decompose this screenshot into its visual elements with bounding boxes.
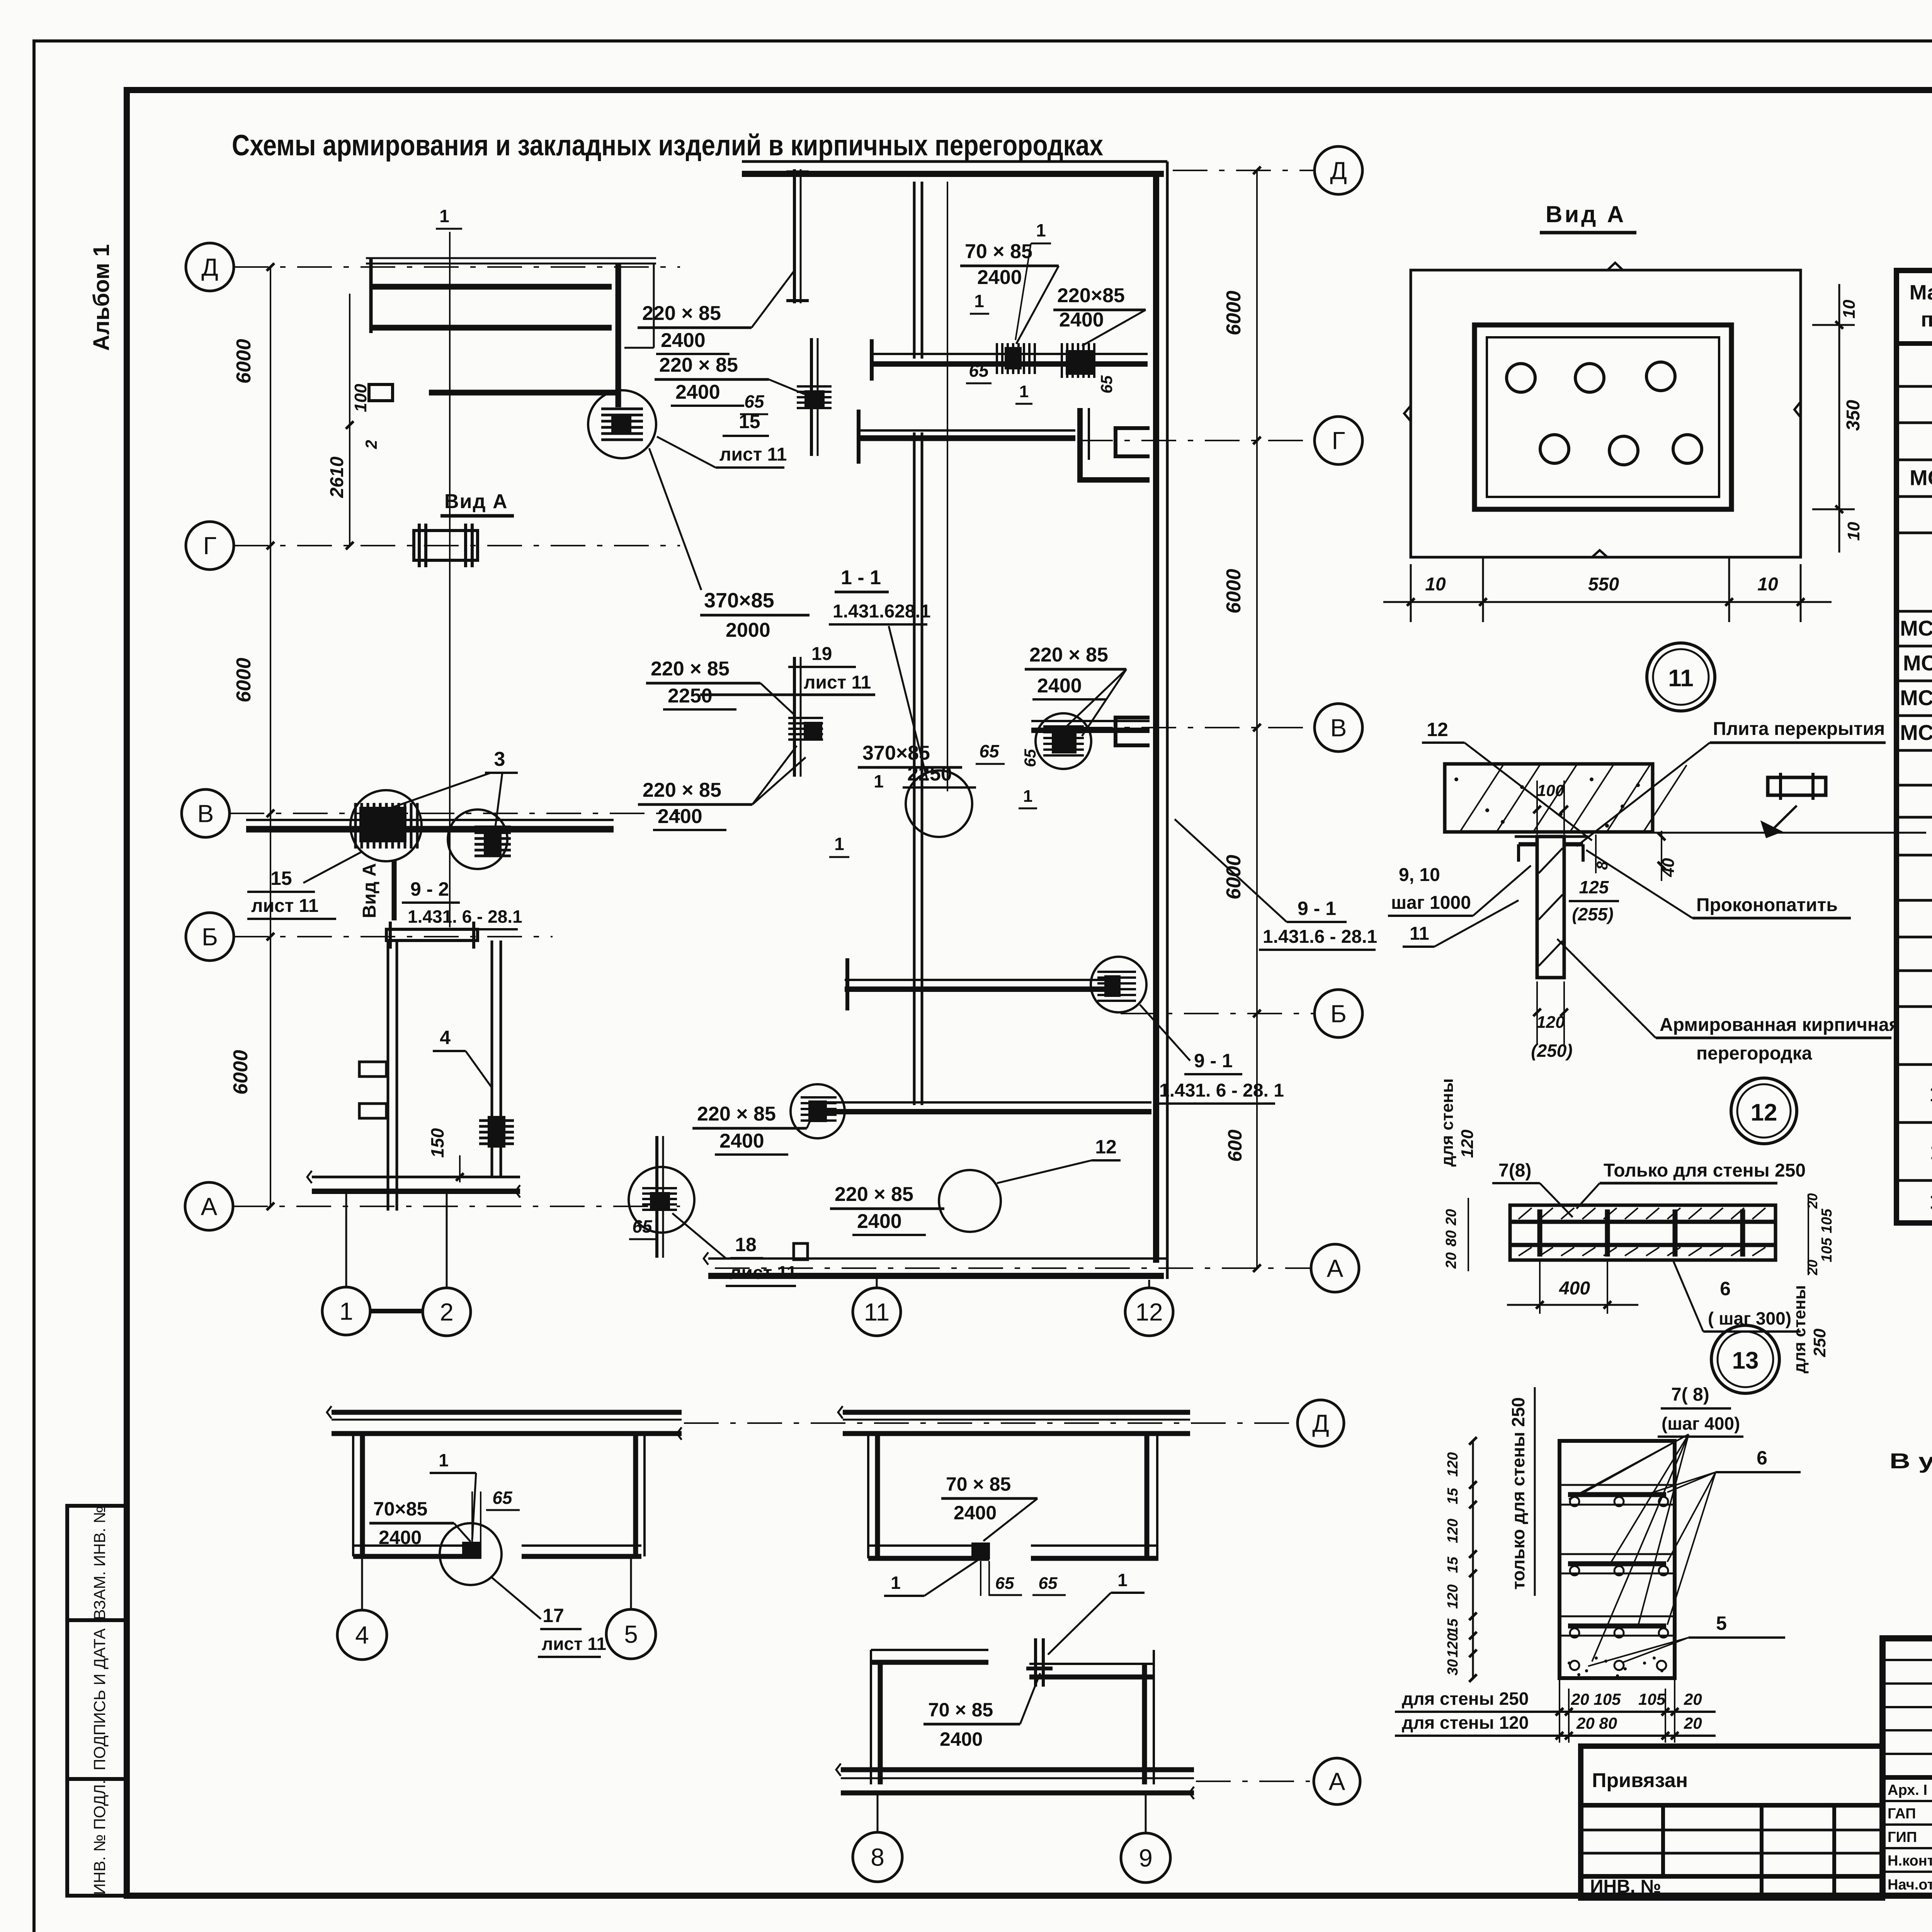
svg-text:лист 11: лист 11 [730, 1263, 797, 1283]
svg-text:2610: 2610 [327, 456, 347, 498]
svg-text:5: 5 [1716, 1612, 1727, 1634]
dim 120 (250) below partition [1536, 981, 1538, 1045]
svg-text:220×85: 220×85 [1057, 284, 1125, 307]
svg-text:13: 13 [1732, 1347, 1759, 1374]
svg-text:перегородка: перегородка [1696, 1043, 1812, 1064]
svg-text:7( 8): 7( 8) [1671, 1384, 1709, 1405]
svg-text:65: 65 [1097, 375, 1116, 393]
left dimension chain [270, 267, 271, 1206]
svg-text:12: 12 [1135, 1298, 1163, 1326]
RP wall axis B [845, 979, 1117, 981]
view A inner plate double contour [1475, 325, 1731, 509]
RP axis G jog [1077, 408, 1083, 483]
svg-text:350: 350 [1843, 400, 1864, 431]
svg-text:Нач.отд.: Нач.отд. [1888, 1877, 1932, 1893]
svg-text:Плита перекрытия: Плита перекрытия [1713, 719, 1885, 739]
RP node row1 b [1066, 350, 1094, 375]
svg-text:65: 65 [979, 741, 1000, 761]
svg-text:ПОДПИСЬ И ДАТА: ПОДПИСЬ И ДАТА [90, 1628, 109, 1770]
svg-text:70 × 85: 70 × 85 [946, 1473, 1011, 1495]
svg-text:лист 11: лист 11 [804, 672, 871, 693]
section 8-9 upper room [843, 1410, 1190, 1415]
svg-text:15: 15 [1445, 1488, 1461, 1504]
svg-text:15: 15 [1445, 1556, 1461, 1573]
svg-text:120: 120 [1445, 1584, 1461, 1609]
svg-text:220 × 85: 220 × 85 [1029, 644, 1108, 666]
svg-text:20: 20 [1804, 1260, 1820, 1276]
big circle junction (1-1 zone) [906, 770, 972, 837]
svg-text:(250): (250) [1531, 1041, 1572, 1061]
svg-text:10: 10 [1425, 574, 1446, 595]
svg-text:1: 1 [891, 1573, 901, 1593]
svg-text:10: 10 [1757, 574, 1778, 595]
svg-text:Б: Б [1330, 1000, 1347, 1027]
bottom-left stamp table [1581, 1746, 1883, 1898]
svg-text:1: 1 [439, 206, 449, 226]
svg-text:150: 150 [427, 1128, 447, 1158]
svg-text:11: 11 [1410, 923, 1429, 944]
svg-text:220 × 85: 220 × 85 [643, 779, 721, 801]
section line 1 left plan [449, 232, 451, 927]
svg-text:Арх. I кат: Арх. I кат [1888, 1782, 1932, 1798]
svg-text:2400: 2400 [940, 1728, 983, 1750]
svg-text:65: 65 [744, 391, 765, 412]
svg-text:250: 250 [1810, 1328, 1829, 1357]
svg-text:1.431. 6 - 28. 1: 1.431. 6 - 28. 1 [1159, 1080, 1284, 1101]
svg-text:11: 11 [1668, 665, 1694, 692]
svg-text:15: 15 [1445, 1618, 1461, 1635]
svg-text:9 - 1: 9 - 1 [1298, 898, 1336, 919]
LP top corridor walls [366, 257, 656, 259]
svg-text:шаг 1000: шаг 1000 [1391, 893, 1471, 913]
svg-text:120: 120 [1445, 1452, 1461, 1476]
RP node axis V [1052, 728, 1077, 753]
RP node below-B left [808, 1100, 827, 1122]
svg-text:6000: 6000 [230, 1050, 252, 1095]
title block outer [1883, 1638, 1932, 1896]
svg-text:Вид А: Вид А [444, 490, 508, 513]
svg-text:для стены: для стены [1790, 1285, 1809, 1373]
svg-text:2400: 2400 [379, 1527, 422, 1548]
svg-text:А: А [1329, 1767, 1345, 1795]
svg-text:1: 1 [874, 771, 884, 791]
svg-text:для стены 120: для стены 120 [1402, 1713, 1529, 1733]
svg-text:9: 9 [1139, 1844, 1153, 1872]
svg-text:МС 64-1: МС 64-1 [1900, 616, 1932, 640]
section line 1 right plan [947, 182, 948, 791]
svg-text:80: 80 [1443, 1230, 1459, 1247]
d13 left dim chain [1472, 1441, 1474, 1678]
svg-text:6: 6 [1720, 1278, 1731, 1299]
svg-text:105: 105 [1819, 1237, 1835, 1262]
RP node axis B with circle [1104, 975, 1121, 997]
svg-text:В: В [1330, 714, 1347, 742]
svg-text:70 × 85: 70 × 85 [965, 240, 1032, 263]
flange bar 2 + node [810, 338, 813, 456]
RP node row1 a [1005, 347, 1022, 369]
slab (plita perekrytiya) [1445, 764, 1653, 832]
svg-text:для стены 250: для стены 250 [1402, 1689, 1529, 1709]
svg-text:Привязан: Привязан [1592, 1769, 1688, 1792]
svg-text:2400: 2400 [661, 329, 706, 352]
svg-text:ИНВ. №: ИНВ. № [1590, 1876, 1661, 1897]
rebar rows [1568, 1492, 1666, 1497]
label 15 list 11 (axis V) [303, 852, 361, 883]
svg-text:ИНВ. № ПОДЛ.: ИНВ. № ПОДЛ. [90, 1780, 109, 1895]
svg-text:2400: 2400 [658, 805, 702, 828]
svg-text:550: 550 [1588, 574, 1619, 595]
svg-text:65: 65 [995, 1574, 1014, 1593]
svg-text:3: 3 [494, 748, 505, 770]
LP opening on axis B [386, 929, 478, 940]
svg-text:10: 10 [1844, 522, 1863, 541]
axis dash-dot lines left plan [234, 266, 680, 268]
right plan axes dash-dot [1173, 170, 1315, 171]
svg-text:220 × 85: 220 × 85 [642, 302, 721, 325]
bottom bubbles 11 12 [876, 1279, 878, 1287]
LP axis A floor beam [312, 1176, 520, 1179]
svg-text:12: 12 [1427, 719, 1448, 740]
svg-text:для стены: для стены [1438, 1078, 1457, 1167]
signature empty rows [1883, 1659, 1932, 1661]
svg-text:100: 100 [351, 384, 370, 412]
svg-text:19: 19 [811, 644, 832, 664]
svg-text:15: 15 [270, 867, 292, 889]
RP interior vertical partition [913, 182, 916, 359]
svg-text:1 - 1: 1 - 1 [841, 566, 881, 589]
view A break marks [1607, 263, 1623, 270]
svg-text:1: 1 [974, 291, 984, 311]
svg-text:2400: 2400 [954, 1502, 997, 1524]
LP node on axis V (big dark) [350, 790, 422, 861]
RP wall axis V [1031, 720, 1150, 722]
specification table grid [1896, 270, 1932, 1223]
svg-text:12: 12 [1095, 1136, 1117, 1158]
svg-text:ГАП: ГАП [1888, 1806, 1916, 1822]
svg-text:1: 1 [339, 1297, 353, 1325]
LP right vertical wall below B [491, 940, 493, 1177]
RP bottom wall axis A [708, 1257, 1167, 1260]
right dimension chain [1256, 170, 1258, 1268]
svg-text:5: 5 [624, 1620, 638, 1648]
svg-text:12: 12 [1751, 1099, 1777, 1126]
svg-text:125: 125 [1579, 877, 1609, 897]
svg-text:лист 11: лист 11 [251, 896, 318, 916]
svg-text:70×85: 70×85 [373, 1498, 427, 1520]
svg-text:6000: 6000 [233, 658, 255, 702]
svg-text:20: 20 [1804, 1193, 1820, 1209]
svg-text:Альбом 1: Альбом 1 [89, 244, 114, 351]
RP axis G wall [859, 429, 1075, 432]
svg-text:120: 120 [1445, 1633, 1461, 1657]
RP top wall axis D [742, 160, 1167, 163]
svg-text:220 × 85: 220 × 85 [835, 1183, 913, 1206]
view A outer plate [1411, 270, 1801, 557]
svg-text:105: 105 [1638, 1690, 1666, 1708]
svg-text:9, 10: 9, 10 [1399, 865, 1440, 885]
svg-text:Марка: Марка [1910, 281, 1932, 304]
svg-text:9 - 1: 9 - 1 [1194, 1050, 1233, 1071]
flange bar lower-left with node [655, 1136, 658, 1258]
left strip stamp boxes [67, 1506, 127, 1896]
bubbles 4 5 [361, 1556, 363, 1610]
svg-text:(255): (255) [1572, 904, 1613, 924]
svg-text:(шаг 400): (шаг 400) [1662, 1413, 1740, 1434]
dim 100 above partition [1536, 781, 1538, 835]
flange bar 1 [793, 169, 796, 303]
svg-text:10: 10 [1840, 299, 1859, 318]
svg-text:6000: 6000 [1223, 569, 1245, 614]
svg-text:370×85: 370×85 [862, 742, 930, 764]
svg-text:2400: 2400 [719, 1130, 764, 1152]
svg-text:65: 65 [492, 1488, 513, 1508]
detail bubble 13 [1711, 1325, 1779, 1393]
d12 dim 400 [1539, 1262, 1541, 1314]
svg-text:Вид А: Вид А [1546, 201, 1626, 227]
svg-text:1: 1 [1023, 787, 1032, 806]
svg-text:65: 65 [632, 1216, 653, 1236]
svg-text:10: 10 [1929, 1082, 1932, 1106]
svg-text:А: А [1327, 1254, 1344, 1282]
svg-text:Н.контр.: Н.контр. [1888, 1853, 1932, 1869]
svg-text:Д: Д [201, 253, 218, 281]
svg-text:6: 6 [1757, 1447, 1767, 1469]
svg-text:А: А [201, 1192, 218, 1220]
svg-text:6000: 6000 [1223, 855, 1245, 900]
svg-text:2400: 2400 [1037, 675, 1082, 697]
bottom concrete band [1568, 1662, 1571, 1665]
svg-text:30: 30 [1445, 1659, 1461, 1675]
LP node 2 on axis V [448, 810, 507, 869]
LP left vertical wall below B [387, 940, 389, 1211]
svg-text:2400: 2400 [857, 1210, 902, 1233]
svg-text:1: 1 [1019, 382, 1029, 401]
svg-text:2: 2 [440, 1298, 454, 1326]
detail bubble 12 [1731, 1078, 1797, 1144]
wall elevation [1560, 1441, 1675, 1678]
svg-text:поз.: поз. [1921, 308, 1932, 331]
wall band section [1510, 1205, 1776, 1260]
svg-text:лист 11: лист 11 [542, 1634, 606, 1654]
svg-text:100: 100 [1537, 781, 1564, 799]
svg-text:лист 11: лист 11 [719, 444, 787, 465]
svg-text:ГИП: ГИП [1888, 1829, 1917, 1845]
svg-text:Д: Д [1312, 1409, 1329, 1437]
svg-text:Д: Д [1330, 156, 1347, 184]
svg-text:2: 2 [362, 440, 380, 449]
right plan axis bubbles [1315, 146, 1362, 194]
detail bubble 11 [1647, 643, 1715, 711]
bubbles 8 9 [877, 1793, 879, 1832]
view A bottom dimension [1410, 564, 1412, 622]
svg-text:только для стены 250: только для стены 250 [1508, 1397, 1528, 1590]
axis D dashdot to bubble [684, 1422, 1294, 1424]
view A right dimension [1812, 324, 1855, 326]
svg-text:2250: 2250 [668, 685, 713, 707]
section 4-5 top beam [332, 1410, 682, 1415]
RP right outer wall [1166, 162, 1169, 1279]
svg-text:Б: Б [202, 923, 218, 951]
svg-text:2400: 2400 [977, 266, 1022, 289]
steel angles at partition top [1519, 842, 1536, 847]
svg-text:11: 11 [1930, 1139, 1932, 1164]
secondary dim chain 2610/100 [349, 294, 350, 546]
svg-text:Только для стены 250: Только для стены 250 [1604, 1160, 1806, 1181]
LP node circle 15/list11 upper [588, 390, 656, 458]
LP wall under corridor [429, 390, 619, 396]
svg-text:6000: 6000 [1223, 291, 1245, 335]
section 8-9 lower room [871, 1649, 988, 1651]
svg-text:600: 600 [1224, 1129, 1246, 1162]
svg-text:ВЗАМ. ИНВ. №: ВЗАМ. ИНВ. № [90, 1506, 109, 1620]
svg-text:220 × 85: 220 × 85 [651, 658, 730, 680]
svg-text:12: 12 [1929, 1189, 1932, 1213]
section 8-9 bottom beam [841, 1767, 1194, 1772]
svg-text:20: 20 [1684, 1690, 1702, 1708]
svg-text:9 - 2: 9 - 2 [410, 878, 449, 900]
bubbles 1 2 [345, 1192, 347, 1287]
svg-text:20: 20 [1443, 1209, 1459, 1226]
svg-text:МС65-1: МС65-1 [1903, 651, 1932, 675]
svg-text:Армированная кирпичная: Армированная кирпичная [1660, 1015, 1900, 1035]
svg-text:20: 20 [1684, 1714, 1702, 1732]
svg-text:Схемы армирования и закладных: Схемы армирования и закладных изделий в … [232, 129, 1103, 162]
ceiling line and view marker [1653, 832, 1926, 834]
svg-text:65: 65 [1039, 1574, 1058, 1593]
LP ladder opening on axis G [414, 531, 478, 560]
svg-text:400: 400 [1559, 1278, 1590, 1299]
flange bar 3 + node [793, 657, 796, 777]
svg-text:4: 4 [355, 1621, 369, 1649]
svg-text:220 × 85: 220 × 85 [659, 354, 738, 376]
svg-text:17: 17 [543, 1605, 564, 1626]
svg-text:2400: 2400 [675, 381, 720, 403]
view A holes [1507, 364, 1535, 392]
svg-text:18: 18 [735, 1234, 757, 1255]
LP wall on axis V [246, 819, 614, 821]
svg-text:220 × 85: 220 × 85 [697, 1103, 776, 1125]
svg-text:МС 74-1: МС 74-1 [1900, 685, 1932, 710]
svg-text:1: 1 [1117, 1570, 1128, 1590]
svg-text:Проконопатить: Проконопатить [1696, 895, 1838, 915]
svg-text:7(8): 7(8) [1498, 1160, 1531, 1181]
svg-text:11: 11 [864, 1298, 889, 1326]
svg-text:8: 8 [871, 1843, 884, 1871]
svg-text:370×85: 370×85 [704, 589, 774, 612]
svg-text:1: 1 [439, 1450, 449, 1470]
svg-text:20 80: 20 80 [1576, 1714, 1617, 1732]
svg-text:20 105: 20 105 [1571, 1690, 1621, 1708]
svg-text:1.431.6 - 28.1: 1.431.6 - 28.1 [1263, 927, 1377, 947]
svg-text:20: 20 [1443, 1252, 1459, 1269]
svg-text:6000: 6000 [233, 339, 255, 384]
svg-text:120: 120 [1445, 1519, 1461, 1543]
svg-text:105: 105 [1819, 1208, 1835, 1233]
svg-text:Вид А: Вид А [359, 863, 380, 918]
svg-text:1: 1 [834, 834, 844, 854]
svg-text:2250: 2250 [907, 763, 952, 785]
svg-text:2000: 2000 [726, 619, 770, 641]
svg-text:МС 74-2: МС 74-2 [1900, 720, 1932, 745]
section 4-5 room [352, 1434, 354, 1556]
svg-text:В: В [197, 799, 214, 827]
vid A vertical arrow near node [392, 861, 397, 920]
svg-text:1.431.628.1: 1.431.628.1 [833, 601, 931, 622]
svg-text:1.431. 6 - 28.1: 1.431. 6 - 28.1 [408, 906, 522, 927]
left plan axis bubbles [186, 243, 234, 291]
svg-text:МС 54: МС 54 [1910, 466, 1932, 490]
svg-text:4: 4 [440, 1027, 451, 1048]
svg-text:В узле 13 стержни поз. 5, 6 за: В узле 13 стержни поз. 5, 6 завести на о… [1889, 1449, 1932, 1473]
brick partition below slab [1515, 835, 1588, 838]
svg-text:70 × 85: 70 × 85 [928, 1699, 993, 1721]
svg-text:65: 65 [1021, 749, 1039, 767]
svg-text:120: 120 [1458, 1129, 1477, 1158]
svg-text:1: 1 [1036, 220, 1046, 240]
RP wall below B [814, 1101, 1151, 1104]
svg-text:65: 65 [969, 361, 989, 381]
svg-text:Г: Г [203, 532, 217, 560]
svg-text:Г: Г [1332, 427, 1345, 454]
RP horizontal wall row1 [871, 353, 1148, 355]
svg-text:2400: 2400 [1059, 309, 1104, 331]
